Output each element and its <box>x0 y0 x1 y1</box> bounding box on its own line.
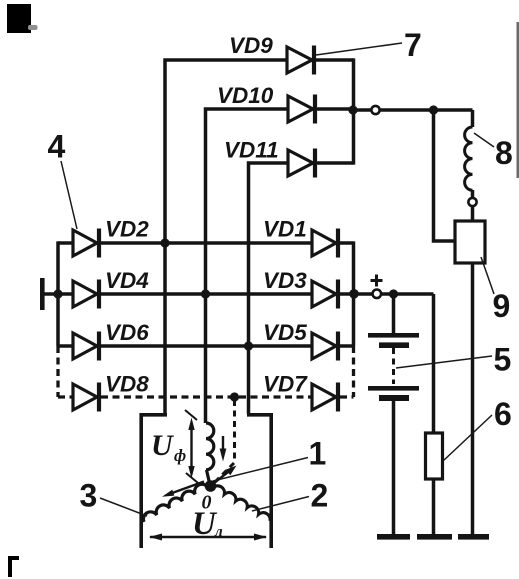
svg-text:ф: ф <box>174 446 186 465</box>
svg-text:0: 0 <box>202 492 212 514</box>
svg-text:8: 8 <box>495 135 513 171</box>
svg-text:3: 3 <box>80 478 98 514</box>
svg-text:VD10: VD10 <box>217 83 274 108</box>
svg-text:л: л <box>214 524 223 540</box>
svg-text:7: 7 <box>404 27 422 63</box>
svg-text:VD4: VD4 <box>105 268 149 293</box>
svg-text:4: 4 <box>48 129 66 165</box>
svg-text:VD3: VD3 <box>263 268 307 293</box>
svg-text:1: 1 <box>309 436 327 472</box>
svg-text:VD6: VD6 <box>105 320 149 345</box>
svg-text:6: 6 <box>494 396 512 432</box>
svg-text:VD2: VD2 <box>105 217 149 242</box>
svg-text:2: 2 <box>311 478 329 514</box>
svg-text:U: U <box>151 429 174 462</box>
svg-text:VD1: VD1 <box>263 217 307 242</box>
svg-text:9: 9 <box>493 288 511 324</box>
svg-text:VD11: VD11 <box>224 138 279 163</box>
svg-text:VD8: VD8 <box>105 372 149 397</box>
svg-text:VD7: VD7 <box>263 372 308 397</box>
svg-text:5: 5 <box>494 342 512 378</box>
svg-text:VD9: VD9 <box>229 33 273 58</box>
svg-text:VD5: VD5 <box>263 320 307 345</box>
